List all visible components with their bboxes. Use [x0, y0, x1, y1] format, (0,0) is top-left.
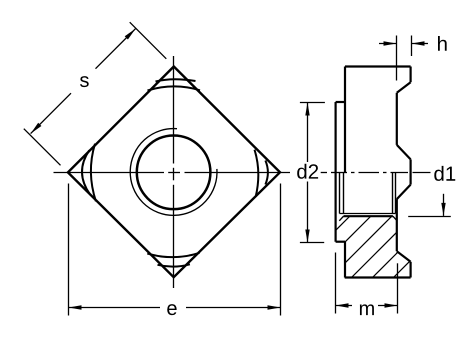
dimension e line	[69, 307, 281, 309]
tapped hole circle	[137, 136, 211, 210]
bore wall line	[344, 215, 393, 217]
countersink edge right	[393, 216, 397, 221]
boss bottom edge	[336, 241, 345, 243]
right face middle land	[410, 159, 412, 184]
chamfer from middle land	[397, 185, 411, 200]
dimension m arrows	[336, 303, 349, 307]
dimension h extension lines	[397, 36, 412, 81]
chamfer arc top corner outer	[148, 86, 201, 90]
right face bottom land	[410, 262, 412, 278]
right recessed face lower	[396, 199, 398, 251]
label e	[167, 304, 176, 315]
right face top land	[410, 67, 412, 83]
vertical centerline front view	[173, 56, 175, 288]
front view: square nut outline (diamond)	[68, 67, 280, 278]
chamfer arc top corner inner	[156, 79, 196, 81]
dimension m extension lines	[336, 253, 398, 314]
boss top edge	[336, 101, 345, 103]
dimension d1 arrow	[441, 203, 445, 216]
dimension h line left	[379, 43, 397, 45]
section hatching	[286, 210, 473, 280]
dimension d1 bore extension line	[408, 216, 451, 218]
boss face	[335, 102, 337, 242]
label m	[360, 304, 374, 315]
left body face lower	[344, 242, 346, 278]
dimension s extension lines	[24, 22, 167, 165]
dimension s arrows	[125, 29, 136, 40]
dimension e extension lines	[69, 184, 281, 316]
horizontal centerline front view	[54, 172, 291, 174]
right recessed face upper	[396, 93, 398, 145]
dimension h arrows	[384, 41, 397, 45]
thread crest line bore	[340, 213, 396, 215]
dimension d1 line	[443, 194, 445, 216]
chamfer arc bottom corner inner	[158, 264, 190, 266]
thread crest 3/4 circle	[130, 129, 217, 216]
label s	[80, 76, 89, 87]
label d1	[434, 166, 455, 181]
chamfer arc right corner outer	[255, 150, 259, 197]
dimension s line lower segment	[31, 29, 136, 134]
horizontal centerline side view	[321, 172, 431, 174]
chamfer top	[397, 82, 411, 93]
left body face upper	[344, 67, 346, 173]
chamfer bottom	[397, 251, 411, 262]
dimension d2 extension lines	[300, 103, 325, 243]
bottom face	[345, 276, 411, 278]
dimension e arrows	[69, 305, 82, 309]
dimension d2 line	[307, 103, 309, 243]
chamfer arc bottom corner outer	[147, 253, 199, 257]
dimension m line	[336, 305, 398, 307]
dimension h line right	[412, 43, 429, 45]
thread end edges in section	[340, 173, 396, 214]
chamfer arc right corner inner	[265, 161, 268, 185]
top face	[345, 65, 411, 67]
countersink edge left	[339, 216, 343, 221]
dimension d2 arrows	[305, 103, 309, 116]
chamfer to middle land	[397, 145, 411, 160]
chamfer arc left corner inner	[82, 150, 90, 194]
label h	[438, 36, 447, 51]
chamfer arc left corner outer	[91, 144, 96, 202]
label d2	[297, 164, 318, 179]
side view outline	[336, 67, 411, 278]
